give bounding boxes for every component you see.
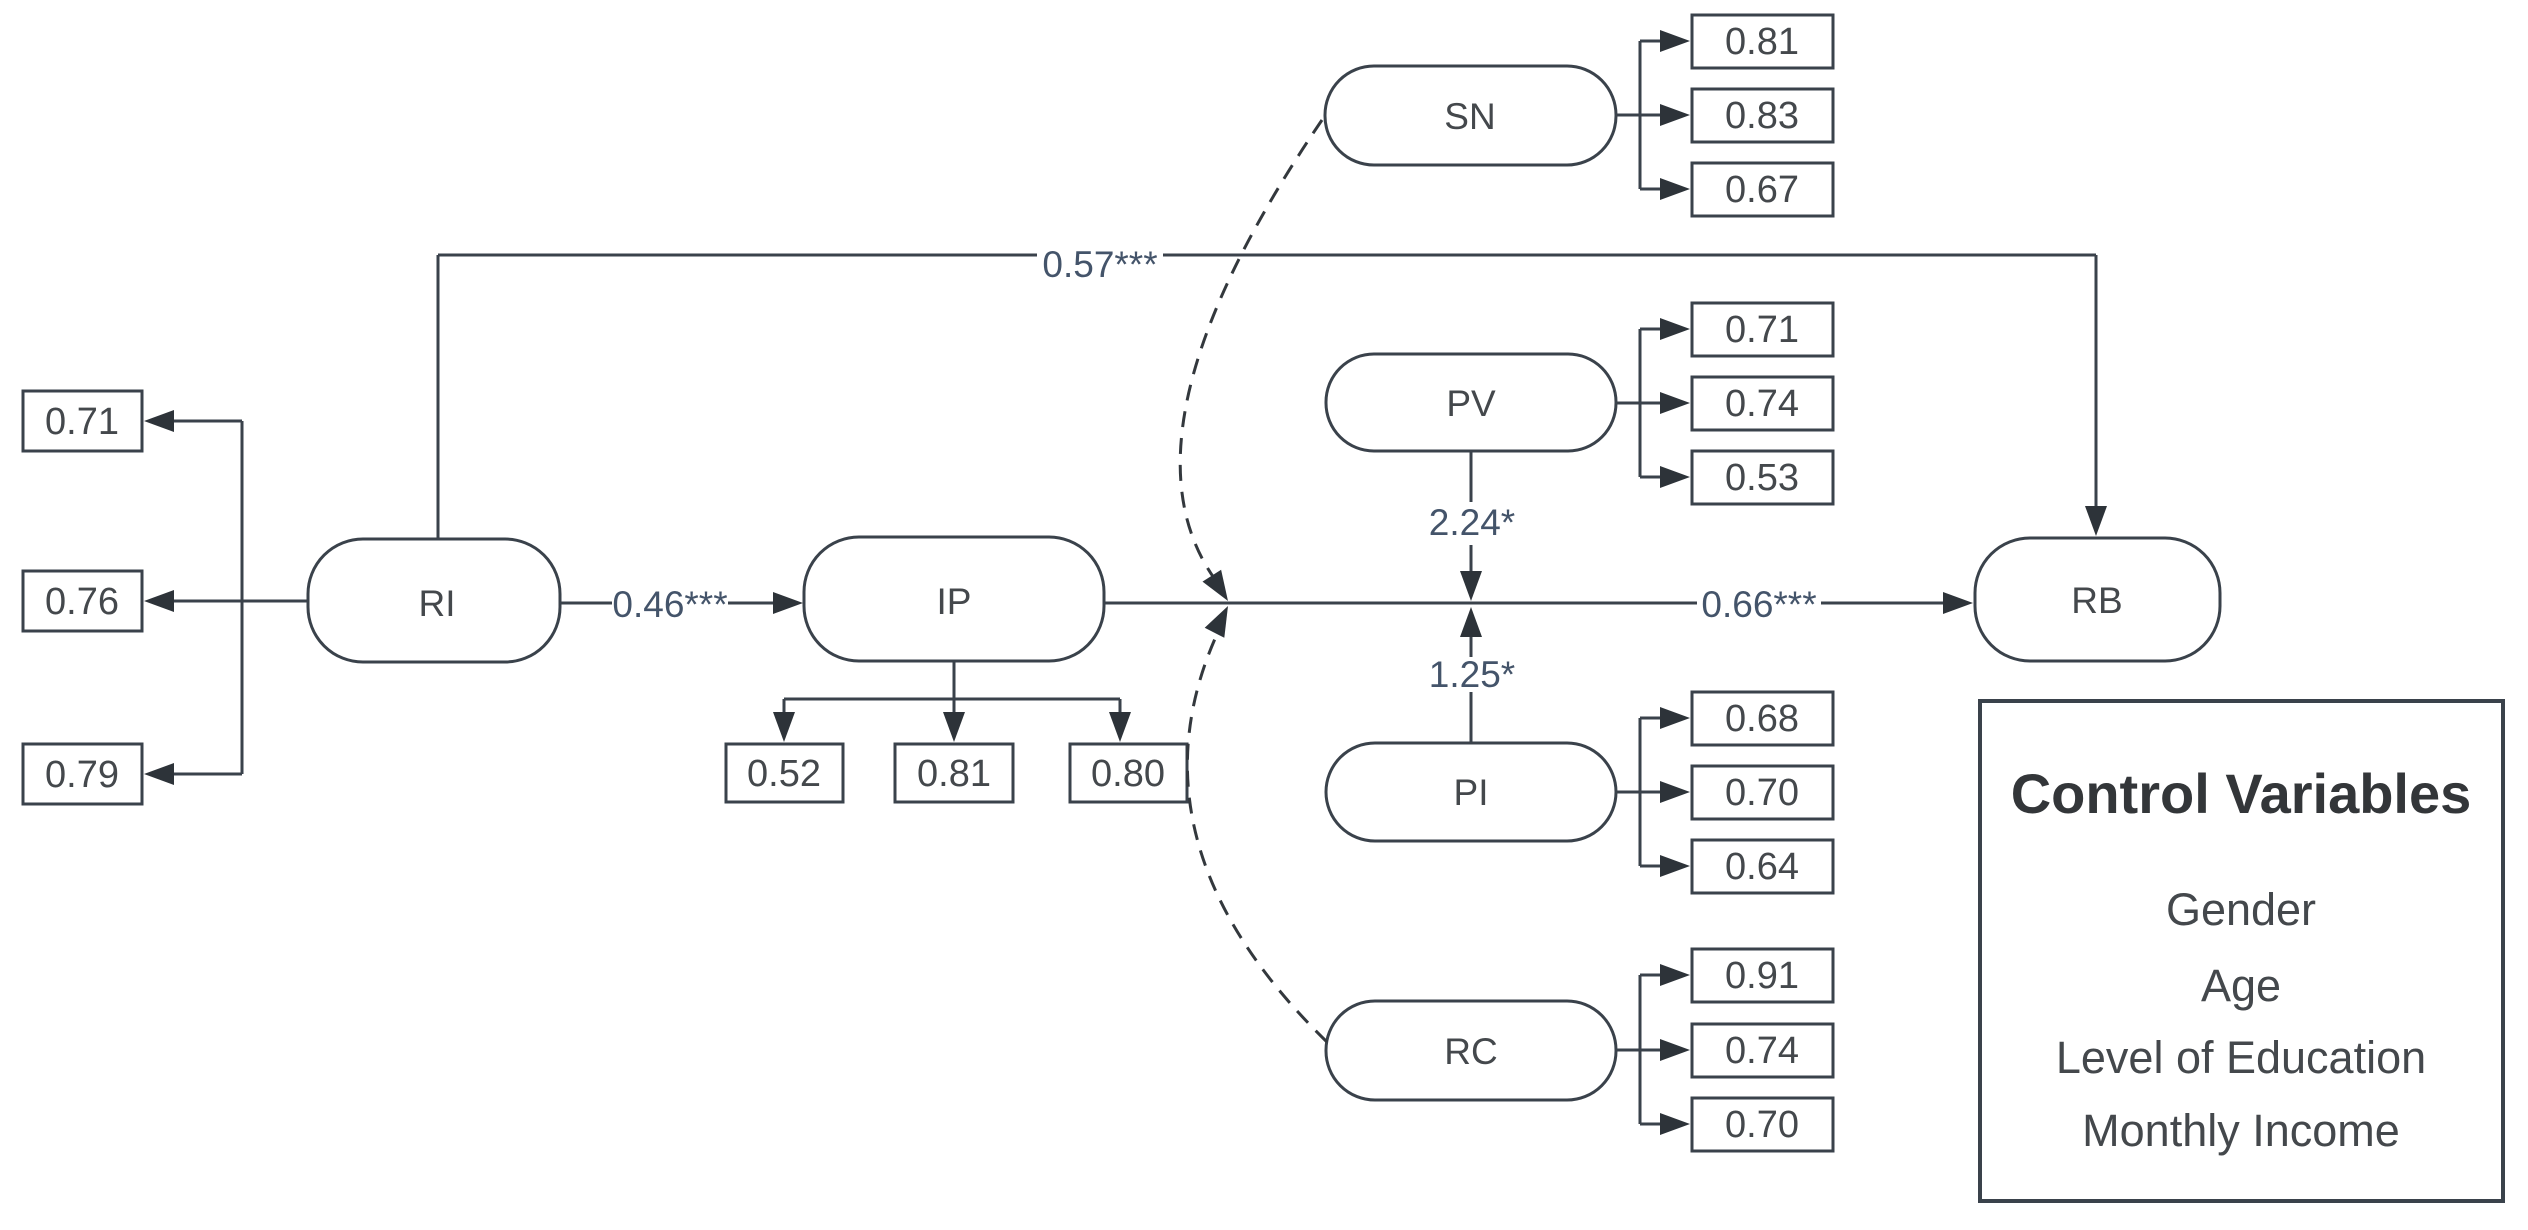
- svg-text:0.66***: 0.66***: [1701, 584, 1816, 625]
- arrowheads PV boxes: [1660, 318, 1690, 488]
- svg-text:0.70: 0.70: [1725, 1104, 1799, 1146]
- svg-text:Control Variables: Control Variables: [2011, 762, 2472, 825]
- latent node RI: [308, 539, 560, 662]
- indicator box 0.74 RC: [1692, 1024, 1833, 1077]
- arrowheads SN boxes: [1660, 30, 1690, 200]
- arrowheads RC boxes: [1660, 964, 1690, 1135]
- svg-text:0.57***: 0.57***: [1042, 244, 1157, 285]
- svg-text:RI: RI: [419, 583, 456, 624]
- indicator box 0.52: [726, 744, 843, 802]
- wire RI right to 0.46 label: [560, 602, 612, 605]
- arrowhead into 0.79: [144, 763, 174, 785]
- svg-text:0.71: 0.71: [1725, 309, 1799, 351]
- svg-text:0.79: 0.79: [45, 754, 119, 796]
- wire PI right branch: [1616, 718, 1664, 866]
- wire SN right branch: [1616, 41, 1664, 189]
- control variables box: [1980, 701, 2503, 1201]
- arrowhead dashed RC curve at junction: [1205, 606, 1228, 638]
- arrowhead into IP left: [773, 592, 803, 614]
- svg-text:IP: IP: [937, 581, 972, 622]
- latent node RC: [1326, 1001, 1616, 1100]
- wire 0.57 horizontal right segment: [1163, 254, 2096, 257]
- svg-text:0.67: 0.67: [1725, 169, 1799, 211]
- indicator box 0.67 SN: [1692, 163, 1833, 216]
- wire RI left to 0.76 arrow: [172, 600, 308, 603]
- indicator box 0.91 RC: [1692, 949, 1833, 1002]
- wire 0.46 label to IP arrow: [728, 602, 777, 605]
- svg-text:0.53: 0.53: [1725, 457, 1799, 499]
- indicator box 0.53 PV: [1692, 451, 1833, 504]
- svg-text:RB: RB: [2071, 580, 2122, 621]
- svg-text:PV: PV: [1446, 383, 1496, 424]
- wire stub to 0.80: [1119, 699, 1122, 716]
- wire IP bottom horizontal: [784, 698, 1120, 701]
- svg-text:0.68: 0.68: [1725, 698, 1799, 740]
- latent node PV: [1326, 354, 1616, 451]
- arrowheads PI boxes: [1660, 707, 1690, 877]
- latent node IP: [804, 537, 1104, 661]
- arrowhead into 0.71: [144, 410, 174, 432]
- svg-text:0.76: 0.76: [45, 581, 119, 623]
- svg-text:0.52: 0.52: [747, 753, 821, 795]
- svg-text:1.25*: 1.25*: [1429, 654, 1515, 695]
- svg-text:0.83: 0.83: [1725, 95, 1799, 137]
- arrowhead into RB left: [1943, 592, 1973, 614]
- wire PV right branch: [1616, 329, 1664, 477]
- indicator box 0.70 PI: [1692, 766, 1833, 819]
- arrowhead into RB top: [2085, 506, 2107, 536]
- latent node PI: [1326, 743, 1616, 841]
- arrowhead 1.25 up to line: [1460, 607, 1482, 637]
- wire RI top vertical to 0.57 line: [437, 255, 440, 539]
- svg-text:0.46***: 0.46***: [612, 584, 727, 625]
- indicator box 0.81 under IP: [895, 744, 1013, 802]
- svg-text:0.91: 0.91: [1725, 955, 1799, 997]
- indicator box 0.80: [1070, 744, 1187, 802]
- indicator box 0.79 left: [23, 744, 142, 804]
- dashed curve RC to junction: [1187, 632, 1327, 1042]
- wire PI up lower segment: [1470, 692, 1473, 743]
- svg-text:0.70: 0.70: [1725, 772, 1799, 814]
- arrowhead down to 0.81: [943, 712, 965, 742]
- indicator box 0.64 PI: [1692, 840, 1833, 893]
- indicator box 0.83 SN: [1692, 89, 1833, 142]
- wire left vertical connector: [241, 421, 244, 774]
- wire RC right branch: [1616, 975, 1664, 1124]
- svg-text:2.24*: 2.24*: [1429, 502, 1515, 543]
- svg-text:0.74: 0.74: [1725, 383, 1799, 425]
- wire IP right to 0.66 label (through junction): [1104, 602, 1697, 605]
- wire stub to 0.52: [783, 699, 786, 716]
- arrowhead into 0.76: [144, 590, 174, 612]
- arrowhead 2.24 down to line: [1460, 571, 1482, 601]
- svg-text:Age: Age: [2201, 960, 2281, 1011]
- arrowhead down to 0.52: [773, 712, 795, 742]
- wire 0.66 label to RB arrow: [1821, 602, 1947, 605]
- svg-text:Gender: Gender: [2166, 884, 2316, 935]
- wire PV down upper segment: [1470, 451, 1473, 502]
- svg-text:SN: SN: [1444, 96, 1495, 137]
- wire PI up upper segment: [1470, 636, 1473, 657]
- latent node SN: [1325, 66, 1616, 165]
- wire to 0.79 arrow: [172, 773, 242, 776]
- indicator box 0.74 PV: [1692, 377, 1833, 430]
- indicator box 0.81 SN: [1692, 15, 1833, 68]
- indicator box 0.76 left: [23, 571, 142, 631]
- wire PV down lower segment: [1470, 545, 1473, 572]
- svg-text:0.74: 0.74: [1725, 1030, 1799, 1072]
- svg-text:0.64: 0.64: [1725, 846, 1799, 888]
- svg-text:PI: PI: [1454, 772, 1489, 813]
- indicator box 0.71 PV: [1692, 303, 1833, 356]
- wire vertical into RB top: [2095, 255, 2098, 510]
- svg-text:RC: RC: [1444, 1031, 1497, 1072]
- wire stub to 0.81: [953, 699, 956, 716]
- indicator box 0.70 RC: [1692, 1098, 1833, 1151]
- svg-text:0.80: 0.80: [1091, 753, 1165, 795]
- svg-text:0.81: 0.81: [917, 753, 991, 795]
- dashed curve SN to junction: [1180, 120, 1322, 578]
- svg-text:0.81: 0.81: [1725, 21, 1799, 63]
- arrowhead dashed SN curve at junction: [1203, 570, 1229, 601]
- wire to 0.71 arrow: [172, 420, 242, 423]
- indicator box 0.71 left: [23, 391, 142, 451]
- wire 0.57 horizontal left segment: [438, 254, 1037, 257]
- wire IP bottom vertical: [953, 661, 956, 699]
- latent node RB: [1975, 538, 2220, 661]
- svg-text:Level of Education: Level of Education: [2056, 1032, 2426, 1083]
- arrowhead down to 0.80: [1109, 712, 1131, 742]
- indicator box 0.68 PI: [1692, 692, 1833, 745]
- svg-text:0.71: 0.71: [45, 401, 119, 443]
- svg-text:Monthly Income: Monthly Income: [2082, 1105, 2400, 1156]
